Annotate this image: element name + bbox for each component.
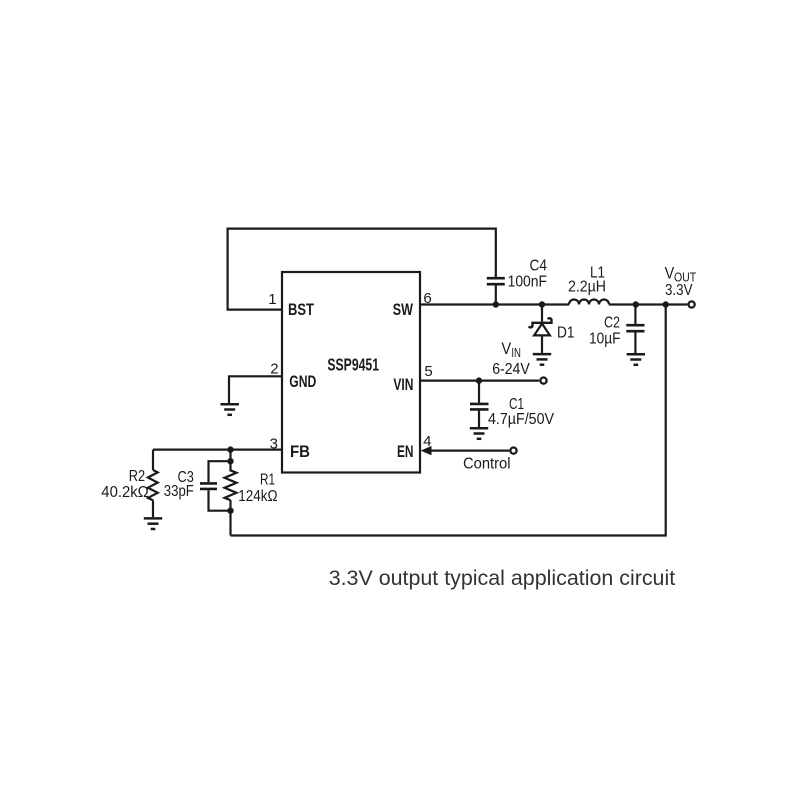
wire : SW pin 6 output line to inductor [420,303,569,305]
svg-text:10µF: 10µF [589,330,621,347]
wire : D1 anode lead [541,335,543,353]
wire : BST bootstrap loop (pin1 to C4 top) [228,229,496,310]
svg-text:C4: C4 [530,257,548,274]
svg-text:SW: SW [393,300,414,319]
node : junction dot VOUT/feedback [663,301,669,307]
node : VOUT output terminal (open circle) [689,301,695,307]
svg-text:IN: IN [511,346,521,360]
capacitor C2 plates [626,325,644,331]
node : junction dot SW/C4 [493,301,499,307]
svg-text:V: V [665,264,675,282]
resistor R2 zigzag [148,470,158,500]
node : junction dot SW/D1 [539,301,545,307]
wire : R2 bottom lead [152,500,154,517]
svg-text:VIN: VIN [393,375,413,394]
node : junction dot R1/C3 bottom [227,508,233,514]
svg-text:Control: Control [463,455,511,472]
svg-text:6: 6 [423,290,431,307]
ground : GND pin ground symbol [221,404,239,415]
wire : feedback bottom rail and right riser to VOUT [231,305,666,536]
svg-text:R1: R1 [260,472,275,489]
svg-text:3: 3 [270,436,278,453]
wire : R1 bottom lead down to feedback rail [229,500,231,535]
svg-text:2: 2 [270,361,278,378]
svg-text:33pF: 33pF [164,483,194,500]
wire : VIN pin 5 line [420,380,539,382]
wire : C1 top lead [478,381,480,403]
node : Control terminal (open circle) [510,448,516,454]
wire : C2 top lead [634,305,636,325]
wire : EN pin 4 control line [429,450,509,452]
diode D1 schottky bar with hooks [529,318,552,327]
svg-text:3.3V: 3.3V [665,282,693,299]
ground : R2 ground symbol [144,518,162,529]
capacitor C4 plates [487,278,505,284]
node : EN arrowhead pointing into pin 4 [421,446,432,455]
svg-text:D1: D1 [557,325,575,342]
inductor L1 [569,300,609,305]
capacitor C3 plates [200,483,217,489]
ground : D1 ground symbol [533,354,551,365]
svg-text:V: V [501,340,511,358]
wire : L1 to VOUT terminal [609,303,687,305]
svg-text:124kΩ: 124kΩ [238,488,277,505]
wire : C3 bottom stub [209,490,231,511]
svg-text:C2: C2 [604,315,620,332]
node : junction dot VIN/C1 [476,377,482,383]
wire : R1 top lead from FB node [229,450,231,472]
op-amp U1 : IC SSP9451 body [282,272,420,473]
svg-text:40.2kΩ: 40.2kΩ [101,484,149,501]
svg-text:R2: R2 [129,468,145,485]
diode D1 triangle (anode, pointing up) [534,324,550,336]
node : VIN input terminal (open circle) [540,378,546,384]
svg-text:100nF: 100nF [508,273,548,290]
svg-text:3.3V output typical applicatio: 3.3V output typical application circuit [329,566,676,590]
svg-text:4.7µF/50V: 4.7µF/50V [488,411,554,428]
svg-text:EN: EN [397,442,414,461]
svg-text:SSP9451: SSP9451 [327,355,379,375]
wire : C1 bottom lead [478,411,480,427]
node : junction dot VOUT/C2 [633,301,639,307]
wire : C4 bottom lead to SW node [495,285,497,304]
capacitor C1 plates [470,404,489,410]
svg-text:5: 5 [424,363,432,380]
svg-text:2.2µH: 2.2µH [568,278,606,295]
wire : D1 cathode lead [541,305,543,322]
node : junction dot FB/R1 [227,446,233,452]
svg-text:6-24V: 6-24V [492,361,530,378]
wire : C3 top stub [209,461,231,482]
wire : C2 bottom lead [634,332,636,353]
svg-text:FB: FB [290,442,310,461]
ground : C2 ground symbol [627,354,645,365]
wire : GND pin 2 lead [229,376,282,403]
wire : R2 top lead [152,450,154,470]
ground : C1 ground symbol [470,428,488,439]
node : junction dot R1/C3 top [227,458,233,464]
wire : FB pin 3 line [153,449,282,451]
svg-text:BST: BST [288,300,314,319]
svg-text:GND: GND [289,372,316,391]
svg-text:1: 1 [268,291,276,308]
svg-text:4: 4 [423,433,431,450]
resistor R1 zigzag [225,470,237,500]
